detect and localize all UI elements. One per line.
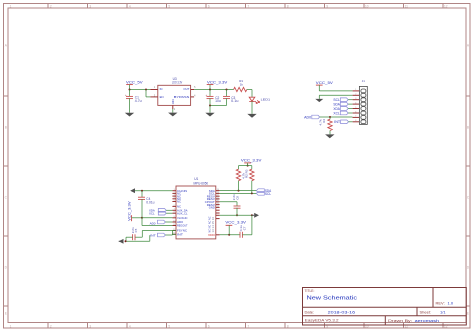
svg-text:2: 2 <box>50 324 52 328</box>
node junction (125.5,241.3) <box>125 240 127 242</box>
wire OUT to VCC_3.3V rail <box>194 89 234 91</box>
svg-text:12: 12 <box>444 4 448 8</box>
svg-text:VCC_3.3V: VCC_3.3V <box>225 219 246 224</box>
svg-text:NC NC NC NC: NC NC NC NC <box>208 216 212 232</box>
svg-text:3: 3 <box>174 195 175 197</box>
svg-text:7: 7 <box>355 116 356 118</box>
pin NC <box>172 192 176 194</box>
svg-text:INT: INT <box>150 234 156 238</box>
ground (arrow right) <box>254 213 259 218</box>
svg-text:9: 9 <box>174 216 175 218</box>
pin SCL <box>216 192 220 194</box>
svg-text:1.0: 1.0 <box>448 301 454 306</box>
wire <box>145 90 147 97</box>
svg-text:VCC_5V: VCC_5V <box>316 80 333 85</box>
ground <box>315 99 323 102</box>
svg-text:VCC_3.3V: VCC_3.3V <box>207 79 228 84</box>
pin 4 <box>191 96 195 98</box>
svg-text:EasyEDA V5.3.2: EasyEDA V5.3.2 <box>305 319 339 323</box>
wire pin2 GND <box>319 94 352 96</box>
svg-text:MPU-6050: MPU-6050 <box>194 181 209 185</box>
svg-text:SCL: SCL <box>333 98 340 102</box>
svg-text:TITLE:: TITLE: <box>305 289 315 293</box>
capacitor C2 <box>209 90 211 97</box>
svg-text:7: 7 <box>174 209 175 211</box>
svg-text:5: 5 <box>355 107 356 109</box>
svg-text:REV:: REV: <box>436 301 445 306</box>
pin INT <box>172 233 176 235</box>
svg-text:21: 21 <box>217 197 219 199</box>
pin FSYNC <box>172 230 176 232</box>
resistor R4 <box>234 87 247 91</box>
svg-text:2: 2 <box>355 94 356 96</box>
node junction (210,105.5) <box>209 105 211 107</box>
wire <box>130 89 151 91</box>
svg-text:LDO 3.3V: LDO 3.3V <box>172 81 183 85</box>
svg-text:AUX_CL: AUX_CL <box>177 211 188 215</box>
capacitor C5 <box>132 234 134 240</box>
svg-text:+: + <box>125 93 127 97</box>
wire FSYNC / C5 net <box>142 230 172 232</box>
wire VDD <box>220 234 240 236</box>
svg-text:LED1: LED1 <box>261 97 271 101</box>
svg-text:19: 19 <box>217 203 219 205</box>
svg-text:VCC_3.3V: VCC_3.3V <box>241 157 262 162</box>
node junction (142,217.8) <box>141 217 143 219</box>
svg-text:10: 10 <box>173 220 175 222</box>
node junction (251.9,215.3) <box>251 214 253 216</box>
svg-text:10: 10 <box>365 4 369 8</box>
pin 2 <box>172 105 174 109</box>
node junction (129.5,89.5) <box>129 89 131 91</box>
svg-text:4: 4 <box>355 102 356 104</box>
wire CPOUT <box>220 201 237 203</box>
node junction (142,190.7) <box>141 190 143 192</box>
svg-text:R2 R3: R2 R3 <box>245 169 249 178</box>
pin CPOUT <box>216 201 220 203</box>
svg-text:7: 7 <box>247 324 249 328</box>
svg-text:1: 1 <box>10 324 12 328</box>
wire SDA <box>220 190 257 192</box>
svg-text:2: 2 <box>50 4 52 8</box>
svg-text:4: 4 <box>129 324 131 328</box>
net label SCL <box>256 192 264 196</box>
svg-text:8: 8 <box>355 120 356 122</box>
capacitor C7 <box>239 232 241 238</box>
svg-text:J1: J1 <box>362 79 365 83</box>
node junction (330,117.0) <box>329 116 331 118</box>
pin RESV <box>216 204 220 206</box>
wire pin1 <box>319 90 352 92</box>
svg-text:5: 5 <box>174 200 175 202</box>
svg-text:B: B <box>467 125 469 129</box>
svg-text:2: 2 <box>174 192 175 194</box>
node junction (247.6,165.6) <box>247 165 249 167</box>
svg-text:11: 11 <box>173 224 175 226</box>
ground <box>247 114 256 118</box>
node junction (229.2,234.8) <box>228 234 230 236</box>
svg-text:NC: NC <box>177 200 181 204</box>
svg-text:Date:: Date: <box>305 309 315 314</box>
ground <box>205 113 214 117</box>
svg-text:EN: EN <box>160 95 164 99</box>
svg-text:0.1u: 0.1u <box>231 99 238 103</box>
svg-text:AD0: AD0 <box>150 221 156 225</box>
pin AUX_CL <box>172 212 176 214</box>
pin AD0 <box>172 221 176 223</box>
svg-text:8: 8 <box>174 212 175 214</box>
node junction (146,89.5) <box>145 89 147 91</box>
svg-text:VCC_5V: VCC_5V <box>126 79 143 84</box>
svg-text:AD0: AD0 <box>304 115 311 119</box>
capacitor C1 <box>129 90 131 97</box>
svg-text:1/1: 1/1 <box>440 309 446 314</box>
svg-text:3: 3 <box>355 98 356 100</box>
svg-text:VDD: VDD <box>208 233 215 237</box>
wire GND net <box>220 214 252 216</box>
capacitor C4 <box>141 191 143 198</box>
wire VLOGIC <box>142 217 172 219</box>
svg-text:REGOUT: REGOUT <box>177 224 188 228</box>
svg-text:11: 11 <box>405 4 409 8</box>
svg-text:3: 3 <box>89 324 91 328</box>
svg-text:1: 1 <box>10 4 12 8</box>
svg-text:6: 6 <box>174 205 175 207</box>
wire to ground <box>125 237 127 241</box>
node junction (238.5,190.6) <box>238 190 240 192</box>
svg-text:B: B <box>5 125 7 129</box>
svg-text:5: 5 <box>168 4 170 8</box>
pin NC <box>172 201 176 203</box>
pin NC <box>172 198 176 200</box>
svg-text:0.01u: 0.01u <box>146 200 154 204</box>
svg-text:20: 20 <box>217 200 219 202</box>
wire <box>251 101 253 114</box>
capacitor C8 <box>236 202 238 206</box>
ground <box>119 239 124 244</box>
svg-text:R4: R4 <box>322 119 326 123</box>
net label SDA <box>256 189 264 193</box>
pin GND <box>216 206 220 208</box>
svg-text:VCC_3.3V: VCC_3.3V <box>127 201 131 221</box>
wire cap commons <box>210 105 227 107</box>
svg-text:IN: IN <box>160 87 163 91</box>
svg-text:6: 6 <box>355 111 356 113</box>
ground <box>325 134 334 138</box>
svg-text:+: + <box>206 93 208 97</box>
svg-text:2018-03-16: 2018-03-16 <box>328 309 357 314</box>
op-amp U3 LDO regulator <box>158 85 191 105</box>
svg-text:Sheet:: Sheet: <box>420 309 432 314</box>
pin 1 <box>150 89 157 91</box>
svg-text:GND: GND <box>171 99 175 104</box>
svg-text:10u: 10u <box>215 99 221 103</box>
svg-text:SCL: SCL <box>265 192 271 196</box>
svg-text:GND: GND <box>209 206 215 210</box>
svg-text:Drawn By:: Drawn By: <box>388 319 412 323</box>
LED LED1 <box>249 97 255 101</box>
ground (CLKIN) <box>130 188 135 193</box>
pin REGOUT <box>172 225 176 227</box>
svg-text:BYPASS: BYPASS <box>174 95 190 99</box>
pin VLOGIC <box>172 217 176 219</box>
pin RESV <box>216 195 220 197</box>
svg-text:4.7u: 4.7u <box>135 99 142 103</box>
svg-text:aeromash: aeromash <box>415 319 439 323</box>
pin RESV <box>216 198 220 200</box>
svg-text:13 14 15 16: 13 14 15 16 <box>212 216 215 232</box>
svg-text:C5: C5 <box>134 228 138 232</box>
IC U1 MPU-6050 <box>176 186 216 239</box>
svg-text:23: 23 <box>217 192 219 194</box>
svg-text:New Schematic: New Schematic <box>307 296 358 302</box>
svg-text:E: E <box>467 311 469 315</box>
pin 5 <box>191 89 195 91</box>
svg-text:9: 9 <box>326 4 328 8</box>
resistor R1 <box>238 166 240 170</box>
svg-text:OUT: OUT <box>183 87 189 91</box>
wire CLKIN <box>135 190 172 192</box>
svg-text:SDA: SDA <box>333 103 340 107</box>
node junction (251.8,193.4) <box>251 192 253 194</box>
svg-text:XCL: XCL <box>149 212 155 216</box>
svg-text:C8: C8 <box>236 196 240 200</box>
svg-text:6: 6 <box>208 4 210 8</box>
svg-text:INT: INT <box>334 120 340 124</box>
svg-text:6: 6 <box>208 324 210 328</box>
svg-text:3: 3 <box>89 4 91 8</box>
pin VDD <box>216 234 220 236</box>
svg-text:8: 8 <box>287 4 289 8</box>
pin 3 <box>150 96 157 98</box>
svg-text:8: 8 <box>287 324 289 328</box>
resistor R2 <box>251 166 253 170</box>
wire <box>247 89 252 91</box>
ground <box>168 113 177 117</box>
pin NC <box>172 195 176 197</box>
svg-text:4: 4 <box>174 197 175 199</box>
svg-text:1k: 1k <box>240 83 244 87</box>
ground <box>125 113 134 117</box>
svg-text:E: E <box>5 311 7 315</box>
pin NC <box>172 205 176 207</box>
svg-text:INT: INT <box>177 232 183 236</box>
wire <box>242 234 252 236</box>
node junction (237,215.3) <box>236 214 238 216</box>
svg-text:XDA: XDA <box>333 107 340 111</box>
svg-text:C7: C7 <box>242 226 246 230</box>
svg-text:XCL: XCL <box>333 112 340 116</box>
svg-text:7: 7 <box>247 4 249 8</box>
svg-text:22: 22 <box>217 195 219 197</box>
svg-text:1: 1 <box>355 89 356 91</box>
svg-text:5: 5 <box>168 324 170 328</box>
svg-text:1: 1 <box>174 189 175 191</box>
wire SCL <box>220 192 257 194</box>
wire REGOUT branch <box>141 218 143 226</box>
svg-text:18: 18 <box>217 206 219 208</box>
pin CLKIN <box>172 190 176 192</box>
resistor R3 <box>329 117 331 119</box>
node junction (210,89.5) <box>209 89 211 91</box>
svg-text:4: 4 <box>129 4 131 8</box>
pin SDA <box>216 190 220 192</box>
title block <box>303 288 467 326</box>
pin AUX_DA <box>172 209 176 211</box>
node junction (226.5,89.5) <box>226 89 228 91</box>
svg-text:24: 24 <box>217 189 219 191</box>
